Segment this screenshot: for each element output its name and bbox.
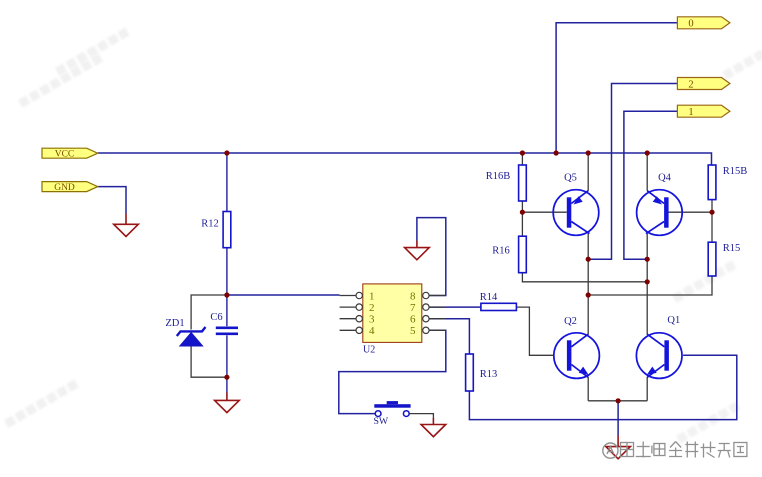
wire C6 column bottom [226,335,228,392]
svg-text:6: 6 [410,314,416,326]
net flag 0 [677,17,730,30]
wire VCC rail [98,153,712,165]
wire flag 1 to node [624,111,678,259]
svg-text:5: 5 [410,325,416,337]
svg-text:R13: R13 [480,369,498,380]
wire emitter rail to ground [617,401,619,436]
resistor R16B [486,165,527,201]
wire U2 pin7 to R14 [429,306,481,308]
junction R15 link [586,292,591,297]
wire flag 2 to node [588,84,677,260]
wire R16B to R16 [521,201,523,236]
wire U2 pin6 to R13 [429,319,469,354]
svg-text:C6: C6 [210,312,222,323]
switch SW [373,401,410,427]
wire GND flag to ground [98,187,126,214]
svg-text:R16: R16 [492,246,510,257]
net flag 1 [677,105,730,118]
wire ZD1 bottom [191,346,227,377]
junction at VCC/Q5 [586,150,591,155]
svg-text:Q5: Q5 [564,173,577,184]
wire U2 pin5 to SW [339,330,446,413]
svg-text:VCC: VCC [55,149,75,159]
svg-text:1: 1 [369,290,375,302]
resistor R15B [708,165,747,200]
svg-text:Q4: Q4 [658,173,672,184]
wire Q4 emitter leg [646,153,648,191]
wire Q5 collector leg down [587,234,589,335]
watermark bottom-right logo [603,443,618,458]
svg-text:U2: U2 [363,344,375,355]
svg-text:7: 7 [410,302,416,314]
resistor R15 [708,242,740,276]
wire node to U2 pin1 [227,294,340,296]
transistor Q1 [636,315,682,378]
watermark faint cluster top-left [18,54,103,108]
U2 pin 3 [340,314,375,326]
U2 pin 4 [340,325,375,337]
junction at VCC/flag0 [554,150,559,155]
ground below emitters [606,436,631,459]
wire emitter rail [588,400,647,402]
power flag VCC [42,148,98,159]
svg-text:4: 4 [369,325,375,337]
junction emitter ground node [616,398,621,403]
zener diode ZD1 [165,318,205,346]
wire R15B top [711,165,713,200]
wire cross link to R15 bottom [588,276,712,295]
capacitor C6 [210,312,238,334]
wire Q4 collector leg down [646,234,648,335]
junction at VCC/R12 [224,150,229,155]
resistor R13 [466,354,498,391]
svg-text:SW: SW [373,416,388,427]
watermark faint cluster mid-right [672,261,736,303]
wire Q5 base [522,211,566,213]
svg-text:1: 1 [688,107,693,118]
ground above U2 (pin8 net) [405,241,430,260]
svg-text:GND: GND [54,183,75,193]
junction flag1 node [645,257,650,262]
svg-text:3: 3 [369,314,375,326]
wire Q4 base [668,211,712,213]
watermark faint cluster top-right [722,50,762,80]
wire R16B top [521,153,523,165]
svg-text:R16B: R16B [486,171,511,182]
watermark bottom-right text [621,442,747,458]
wire C6 column top [226,295,228,326]
U2 pin 1 [340,290,375,302]
svg-text:2: 2 [369,302,375,314]
U2 pin 6 [410,314,446,326]
svg-text:Q2: Q2 [564,316,577,327]
wire SW to ground [409,414,433,418]
resistor R16 [492,236,526,273]
svg-text:R12: R12 [201,219,219,230]
ground right of SW [421,418,446,437]
transistor Q5 [553,173,599,236]
svg-text:8: 8 [410,290,416,302]
ground below GND flag [114,214,139,237]
junction at VCC/Q4 [645,150,650,155]
ground below C6/ZD1 [215,393,240,413]
wire Q1 emitter leg [646,377,648,401]
wire R12 column upper [226,153,228,212]
wire R16 bottom cross link [522,273,647,282]
wire R14 to Q2 base [516,307,553,355]
power flag GND [42,182,98,193]
wire U2 pin8 to ground [417,218,446,296]
transistor Q2 [554,316,600,378]
wire node to ZD1 branch [191,295,227,330]
U2 pin 2 [340,302,375,314]
junction R12/C6 node [224,292,229,297]
transistor Q4 [637,173,683,236]
wire Q2 emitter leg [587,377,589,401]
resistor R14 [480,292,517,311]
watermark faint cluster bottom-right [676,402,740,444]
watermark faint cluster top-left 2 [55,28,130,76]
watermark faint cluster bottom-left [4,380,79,428]
U2 pin 8 [410,290,446,302]
junction C6/ZD1 bottom node [224,375,229,380]
svg-text:R15B: R15B [723,166,748,177]
svg-text:ZD1: ZD1 [165,318,184,329]
U2 pin 7 [410,302,446,314]
junction Q4 base node [709,210,714,215]
wire Q5 emitter leg [587,153,589,191]
svg-text:2: 2 [688,79,693,90]
svg-text:0: 0 [688,19,693,30]
junction Q5 base node [520,210,525,215]
wire flag 0 to rail [556,23,677,153]
junction at VCC/R16B [520,150,525,155]
wire R12 column lower [226,248,228,295]
resistor R12 [201,212,231,248]
svg-text:Q1: Q1 [667,315,680,326]
U2 pin 5 [410,325,446,337]
junction flag2 node [586,257,591,262]
IC U2 [363,284,422,356]
svg-text:R15: R15 [723,243,741,254]
net flag 2 [677,78,730,91]
wire R13 to Q1 base [469,355,736,419]
junction R16 link [645,279,650,284]
svg-text:R14: R14 [480,292,498,303]
wire R15B to R15 [711,200,713,243]
